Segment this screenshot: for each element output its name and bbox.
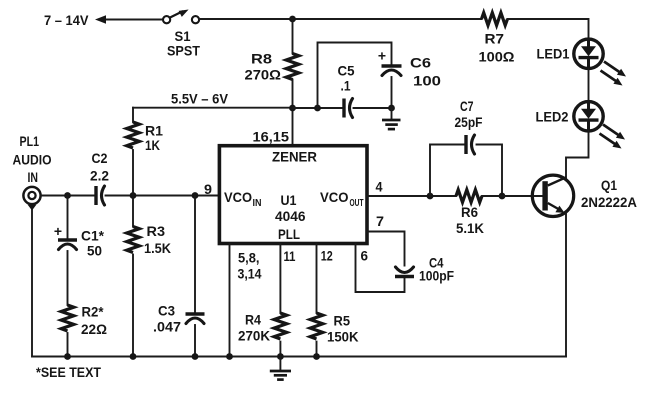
- svg-text:LED1: LED1: [537, 46, 570, 62]
- svg-text:R3: R3: [147, 223, 166, 239]
- junction C1 branch: [64, 192, 71, 199]
- wire R3 bottom lead: [132, 255, 134, 357]
- wire C1 to R2: [67, 251, 69, 305]
- svg-text:C2: C2: [92, 150, 108, 166]
- svg-text:VCO: VCO: [224, 189, 252, 205]
- svg-text:PL1: PL1: [20, 133, 40, 149]
- capacitor C4: [395, 267, 414, 277]
- svg-text:IN: IN: [28, 169, 39, 185]
- svg-text:R2*: R2*: [82, 304, 105, 320]
- svg-text:150K: 150K: [327, 329, 359, 345]
- junction bottom pin 5,8,3,14: [226, 353, 233, 360]
- wire R3 top lead: [132, 196, 134, 227]
- svg-text:7 – 14V: 7 – 14V: [44, 12, 89, 28]
- svg-text:4: 4: [376, 179, 383, 195]
- wire R6 to Q1 base: [482, 195, 543, 197]
- svg-text:270Ω: 270Ω: [245, 67, 282, 83]
- svg-text:U1: U1: [281, 192, 297, 208]
- LED2: [574, 102, 625, 149]
- resistor R4: [274, 313, 287, 339]
- wire R8 top lead: [292, 19, 294, 54]
- svg-text:C3: C3: [158, 303, 175, 319]
- svg-text:PLL: PLL: [278, 226, 300, 242]
- svg-text:2.2: 2.2: [90, 168, 109, 184]
- connector PL1: [23, 187, 40, 211]
- svg-text:12: 12: [321, 248, 333, 264]
- wire pin 4 rail left: [367, 195, 456, 197]
- svg-text:16,15: 16,15: [253, 129, 290, 145]
- svg-text:7: 7: [376, 213, 384, 229]
- wire LED2 to Q1 collector: [566, 131, 589, 179]
- svg-text:270K: 270K: [238, 328, 270, 344]
- junction C5 loop left: [314, 105, 321, 112]
- switch S1: [163, 10, 199, 24]
- junction C7 right leg: [499, 193, 506, 200]
- junction R8 / 5.5V rail: [289, 105, 296, 112]
- svg-text:R4: R4: [245, 312, 261, 328]
- ground below pin 11: [270, 357, 291, 380]
- junction R1/R3 branch: [130, 192, 137, 199]
- capacitor C6: [382, 66, 402, 76]
- svg-text:100Ω: 100Ω: [479, 49, 515, 65]
- svg-text:5.1K: 5.1K: [456, 220, 484, 236]
- svg-text:R5: R5: [334, 313, 351, 329]
- svg-text:2N2222A: 2N2222A: [581, 194, 637, 210]
- wire Q1 emitter drop: [565, 213, 567, 357]
- wire C1 top lead: [67, 196, 69, 239]
- node 7-14V supply arrow: [95, 15, 164, 23]
- svg-text:11: 11: [284, 248, 296, 264]
- junction bottom C1 branch: [64, 353, 71, 360]
- junction bottom pin 12: [313, 353, 320, 360]
- wire 5.5V-6V rail: [133, 107, 293, 109]
- wire C6 bottom lead: [391, 77, 393, 108]
- wire C3 bottom lead: [194, 325, 196, 357]
- svg-text:1K: 1K: [145, 137, 160, 153]
- wire R5 bottom lead: [316, 342, 318, 357]
- wire U1 pin 11 top lead: [279, 244, 281, 314]
- junction bottom C3 branch: [192, 353, 199, 360]
- capacitor C7: [466, 135, 475, 154]
- wire R8 bottom to U1 pins 16,15: [292, 80, 294, 146]
- svg-text:4046: 4046: [275, 208, 306, 224]
- svg-text:+: +: [378, 48, 386, 64]
- svg-text:IN: IN: [253, 198, 262, 209]
- resistor R8: [286, 54, 299, 80]
- svg-text:R8: R8: [251, 51, 272, 67]
- junction C6 / C5 rail: [388, 105, 395, 112]
- resistor R2: [61, 305, 74, 331]
- svg-text:R6: R6: [461, 204, 478, 220]
- wire LED1 to LED2: [588, 68, 590, 101]
- svg-text:C5: C5: [338, 63, 355, 79]
- capacitor C3: [186, 314, 205, 324]
- svg-text:22Ω: 22Ω: [81, 321, 107, 337]
- capacitor C2: [96, 186, 105, 205]
- svg-text:5,8,: 5,8,: [238, 250, 260, 266]
- svg-text:LED2: LED2: [536, 109, 569, 125]
- wire R1 bottom lead: [132, 150, 134, 196]
- resistor R3: [127, 227, 140, 253]
- wire C3 top lead: [194, 196, 196, 313]
- wire R4 bottom lead: [279, 342, 281, 357]
- capacitor C5: [344, 99, 353, 118]
- wire bottom rail: [32, 356, 566, 358]
- wire U1 pin 6 loop: [356, 244, 405, 293]
- svg-text:5.5V – 6V: 5.5V – 6V: [171, 91, 229, 107]
- junction bottom R3 branch: [130, 353, 137, 360]
- wire input rail: [41, 195, 94, 197]
- svg-text:3,14: 3,14: [238, 266, 262, 282]
- capacitor C1: [58, 240, 77, 250]
- junction top rail / R8: [289, 16, 296, 23]
- svg-text:25pF: 25pF: [455, 114, 483, 130]
- wire R2 bottom lead: [67, 333, 69, 357]
- svg-text:ZENER: ZENER: [272, 149, 317, 165]
- svg-text:100: 100: [413, 73, 441, 89]
- svg-text:1.5K: 1.5K: [144, 240, 171, 256]
- wire top rail left: [199, 18, 481, 20]
- svg-text:Q1: Q1: [601, 177, 617, 193]
- wire C7 right loop: [477, 145, 503, 197]
- wire C7 left loop: [430, 145, 464, 197]
- wire PL1 shield drop: [31, 210, 33, 357]
- svg-text:6: 6: [361, 248, 369, 264]
- svg-text:+: +: [54, 223, 62, 239]
- junction C3 branch: [192, 192, 199, 199]
- transistor Q1: [532, 175, 573, 216]
- wire U1 pin 7 to C4: [367, 232, 405, 266]
- resistor R5: [310, 313, 323, 339]
- svg-text:C6: C6: [410, 55, 431, 71]
- ground below C6: [382, 108, 401, 129]
- resistor R7: [482, 13, 508, 26]
- wire U1 pin 5,8,3,14: [229, 244, 231, 357]
- wire U1 pin 12 top lead: [316, 244, 318, 314]
- svg-text:9: 9: [204, 181, 212, 197]
- svg-text:.1: .1: [341, 78, 351, 94]
- junction C7 left leg: [427, 193, 434, 200]
- svg-text:C1*: C1*: [81, 228, 105, 244]
- svg-text:OUT: OUT: [350, 198, 364, 209]
- svg-text:C7: C7: [460, 98, 474, 114]
- svg-text:AUDIO: AUDIO: [13, 152, 52, 168]
- svg-text:*SEE TEXT: *SEE TEXT: [36, 364, 101, 380]
- wire C5 rail: [293, 107, 343, 109]
- wire R1 top lead: [132, 108, 134, 122]
- resistor R1: [127, 122, 140, 148]
- LED1: [574, 39, 626, 85]
- svg-text:SPST: SPST: [167, 43, 200, 59]
- svg-text:100pF: 100pF: [419, 268, 454, 284]
- resistor R6: [456, 190, 482, 203]
- svg-text:50: 50: [87, 243, 102, 259]
- svg-text:VCO: VCO: [320, 189, 349, 205]
- wire C6 loop: [318, 43, 392, 109]
- svg-text:R7: R7: [485, 31, 505, 47]
- IC U1 4046 PLL: [219, 146, 367, 244]
- wire top rail right to LED1: [508, 19, 589, 39]
- svg-text:.047: .047: [153, 319, 181, 335]
- junction bottom pin 11: [277, 353, 284, 360]
